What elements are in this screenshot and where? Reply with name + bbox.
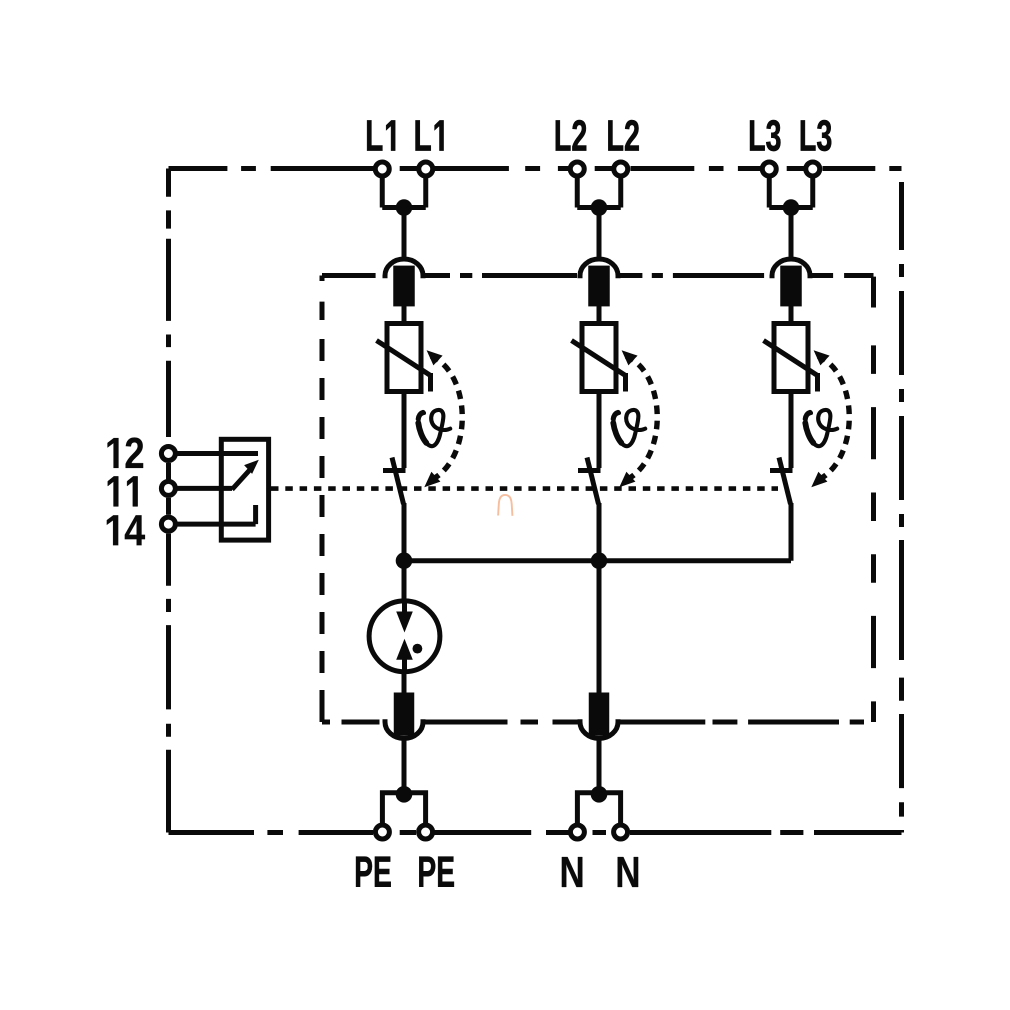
wire plug to varistor L2 [597, 306, 602, 324]
spark gap lower electrode shaft [402, 658, 407, 672]
plug-in disconnect contact L1 (black block, top) [393, 266, 415, 307]
wire L3 left terminal stem [767, 171, 772, 208]
wire L1 down to plug-in module bridge [402, 208, 407, 260]
terminal L3 left (circle) [762, 162, 776, 176]
spark gap body (circle) [369, 601, 440, 672]
thermal disconnector L1 fixed contact tick [383, 468, 406, 473]
thermal trip arc L3 (dashed) [816, 356, 849, 481]
node PE junction [396, 786, 413, 803]
spark gap upper electrode shaft [402, 601, 407, 613]
wire L1 left terminal stem [380, 171, 385, 208]
label L1 (left terminal) [367, 121, 395, 151]
wire bus to N plug module [597, 561, 602, 694]
changeover contact blade [232, 468, 252, 490]
thermal trip arc L2 (dashed) [624, 356, 657, 481]
node bus/L2 [591, 552, 608, 569]
terminal 14 (circle) [161, 517, 175, 531]
terminal L2 left (circle) [570, 162, 584, 176]
changeover contact blade arrowhead [244, 460, 259, 474]
terminal L2 right (circle) [614, 162, 628, 176]
wire terminal 14 lead [172, 522, 256, 527]
wire L2 down to plug-in module bridge [597, 208, 602, 260]
label terminal 12 [107, 438, 143, 468]
wire L1 right terminal stem [423, 171, 428, 208]
thermal disconnector L2 blade (open) [587, 458, 599, 505]
thermal trip arc L2 lower arrowhead [619, 472, 635, 488]
protection module inner boundary, top edge (dash-dot) [322, 273, 874, 278]
protection module inner boundary, right edge (dash-dot) [871, 277, 876, 722]
enclosure outer boundary, top edge (dash-dot) [169, 166, 902, 171]
node bus/L1 [396, 552, 413, 569]
thermal trip arc L2 upper arrowhead [622, 350, 638, 365]
wire L1 terminal bridge [382, 205, 426, 210]
enclosure outer boundary, left edge (dash-dot) [166, 169, 171, 833]
varistor L1 diagonal stroke [377, 341, 431, 376]
wire arch to N junction [597, 739, 602, 795]
wire L2 disconnector to PE bus [597, 503, 602, 561]
wire N terminal yoke [577, 793, 620, 831]
varistor L3 body [774, 324, 808, 392]
plug-in module arch L3 (top) [772, 259, 810, 278]
watermark arch (light orange) [498, 495, 512, 516]
mechanical linkage line (dotted) from remote contact to disconnectors [271, 486, 778, 491]
wire L2 right terminal stem [618, 171, 623, 208]
wire arch to PE junction [402, 739, 407, 795]
protection module inner boundary, left edge (dash-dot) [320, 276, 325, 723]
wire L3 down to plug-in module bridge [789, 208, 794, 260]
enclosure outer boundary, right edge (dash-dot) [899, 182, 904, 833]
plug-in disconnect contact N (black block, bottom) [589, 693, 610, 736]
wire L3 disconnector to PE bus [789, 503, 794, 561]
label L1 (right terminal) [416, 121, 444, 151]
terminal N left (circle) [570, 825, 584, 839]
enclosure outer boundary, bottom edge (dash-dot) [169, 830, 902, 835]
wire varistor L1 to thermal disconnector [402, 392, 407, 469]
varistor L3 diagonal stroke [764, 341, 818, 376]
terminal N right (circle) [614, 825, 628, 839]
label terminal 11 [108, 476, 138, 506]
varistor L3 diagonal tail [815, 373, 820, 392]
temperature label theta L2 [613, 410, 645, 446]
terminal PE left (circle) [375, 825, 389, 839]
node N junction [591, 786, 608, 803]
wire varistor L3 to thermal disconnector [789, 392, 794, 469]
temperature label theta L3 [805, 410, 837, 446]
terminal L3 right (circle) [806, 162, 820, 176]
PE bus wire (horizontal) [404, 558, 791, 563]
varistor L2 diagonal stroke [572, 341, 626, 376]
varistor L1 body [387, 324, 421, 392]
thermal disconnector L3 fixed contact tick [770, 468, 793, 473]
thermal trip arc L3 upper arrowhead [814, 350, 830, 365]
wire L2 terminal bridge [577, 205, 621, 210]
wire L3 terminal bridge [769, 205, 813, 210]
spark gap trigger dot [413, 644, 423, 654]
plug-in module arch L1 (top) [385, 259, 423, 278]
temperature label theta L1 [418, 410, 450, 446]
spark gap lower electrode arrowhead (up) [396, 639, 413, 660]
label L3 (left terminal) [750, 120, 780, 151]
plug-in disconnect contact L2 (black block, top) [588, 266, 610, 307]
thermal trip arc L1 (dashed) [429, 356, 462, 481]
label N (left terminal) [562, 857, 583, 887]
node L2 terminal junction [591, 199, 608, 216]
terminal L1 left (circle) [375, 162, 389, 176]
wire varistor L2 to thermal disconnector [597, 392, 602, 469]
terminal PE right (circle) [419, 825, 433, 839]
label terminal 14 [107, 515, 145, 545]
label N (right terminal) [618, 857, 639, 887]
node L3 terminal junction [783, 199, 800, 216]
varistor L1 diagonal tail [428, 373, 433, 392]
thermal disconnector L1 blade (open) [392, 458, 404, 505]
thermal trip arc L1 upper arrowhead [427, 350, 443, 365]
label PE (left terminal) [356, 857, 391, 887]
terminal 14 contact hook [253, 505, 258, 524]
terminal L1 right (circle) [419, 162, 433, 176]
wire PE terminal yoke [382, 793, 425, 831]
wire spark gap to PE plug module [402, 672, 407, 694]
varistor L2 diagonal tail [623, 373, 628, 392]
label L3 (right terminal) [801, 120, 831, 151]
terminal 11 (circle) [161, 481, 175, 495]
node L1 terminal junction [396, 199, 413, 216]
plug-in module arch L2 (top) [580, 259, 618, 278]
plug-in module arch N (bottom) [580, 719, 618, 738]
thermal trip arc L1 lower arrowhead [424, 472, 440, 488]
protection module inner boundary, bottom edge (dash-dot) [322, 720, 864, 725]
thermal disconnector L3 blade (open) [779, 458, 791, 505]
wire plug to varistor L1 [402, 306, 407, 324]
terminal 12 (circle) [161, 447, 175, 461]
wire terminal 11 lead [172, 486, 232, 491]
wire L3 right terminal stem [810, 171, 815, 208]
wire terminal 12 lead [172, 451, 258, 456]
varistor L2 body [582, 324, 616, 392]
remote signalling contact box [221, 439, 268, 540]
label L2 (left terminal) [556, 120, 587, 150]
spark gap upper electrode arrowhead (down) [396, 612, 413, 633]
wire plug to varistor L3 [789, 306, 794, 324]
thermal trip arc L3 lower arrowhead [811, 472, 827, 488]
plug-in module arch PE (bottom) [385, 719, 423, 738]
label PE (right terminal) [419, 857, 454, 887]
plug-in disconnect contact L3 (black block, top) [780, 266, 802, 307]
thermal disconnector L2 fixed contact tick [578, 468, 601, 473]
wire bus to spark gap [402, 561, 407, 602]
plug-in disconnect contact PE (black block, bottom) [394, 693, 415, 736]
wire L2 left terminal stem [575, 171, 580, 208]
wire L1 disconnector to PE bus [402, 503, 407, 561]
label L2 (right terminal) [608, 120, 639, 150]
